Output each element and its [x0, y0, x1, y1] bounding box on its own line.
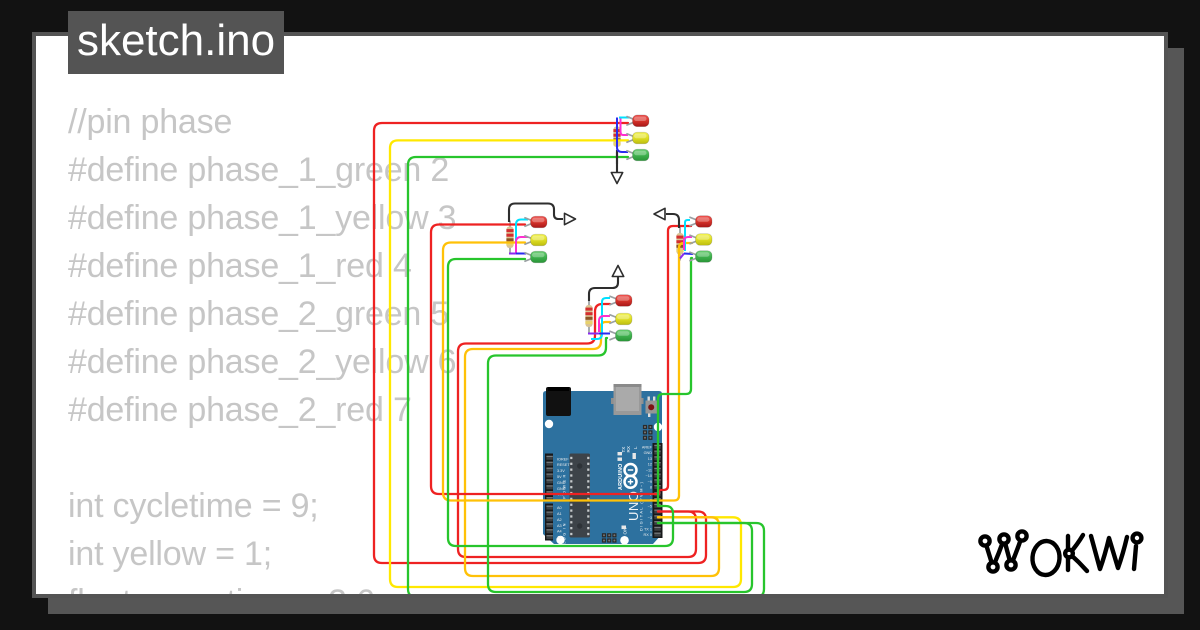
cyan wire right group — [685, 220, 690, 251]
svg-text:TX 1: TX 1 — [644, 527, 652, 531]
svg-text:RX: RX — [626, 446, 631, 452]
resistor R2 left — [506, 221, 513, 255]
digital header low — [653, 491, 663, 539]
cyan wire top group — [619, 117, 630, 119]
svg-text:RESET: RESET — [557, 463, 570, 467]
code listing — [68, 98, 456, 626]
svg-text:~9: ~9 — [648, 480, 652, 484]
LED red left (phase 2) — [525, 216, 547, 228]
svg-text:IOREF: IOREF — [557, 457, 569, 461]
power header — [545, 454, 553, 502]
arduino uno board U1 — [543, 391, 662, 544]
wire phase_1_red top to pin 4 — [374, 123, 706, 563]
LED yellow middle (phase 1) — [610, 313, 632, 325]
svg-text:ANALOG IN: ANALOG IN — [562, 522, 567, 556]
smd leds — [618, 452, 636, 529]
svg-text:A0: A0 — [557, 506, 562, 510]
resistor R4 middle — [585, 299, 592, 333]
LED green top (phase 1) — [627, 149, 649, 161]
magenta wire left group — [516, 237, 528, 253]
LED yellow right (phase 2) — [690, 234, 712, 246]
LED red top (phase 1) — [627, 115, 649, 127]
resistor R3 right — [676, 227, 683, 261]
digital header high — [653, 443, 663, 491]
purple wire left group — [509, 253, 516, 255]
LED green right (phase 2) — [690, 251, 712, 263]
ground ground top group — [611, 150, 622, 184]
svg-text:~10: ~10 — [646, 474, 652, 478]
net arrow left group — [565, 213, 576, 224]
ICSP header 1 — [643, 425, 653, 440]
resistor R1 top — [613, 121, 620, 154]
black wire right group — [666, 214, 679, 228]
wire phase_2_green right to pin 5 — [658, 258, 692, 506]
reset button — [648, 397, 650, 401]
LED red right (phase 2) — [690, 216, 712, 228]
svg-text:A2: A2 — [557, 518, 562, 522]
LED red middle (phase 1) — [610, 295, 632, 307]
LED green middle (phase 1) — [610, 330, 632, 342]
svg-text:13: 13 — [648, 457, 652, 461]
purple wire right group — [680, 254, 684, 259]
magenta wire top group — [621, 119, 629, 136]
black wire left group — [509, 204, 563, 223]
usb connector — [611, 398, 615, 404]
svg-text:~3: ~3 — [648, 516, 652, 520]
wire phase_1_green top to pin 2 — [408, 157, 764, 597]
blue wire middle group — [599, 333, 610, 335]
analog header — [545, 504, 553, 541]
sketch.ino tab — [68, 11, 284, 74]
blue wire top group — [617, 118, 628, 153]
svg-text:2: 2 — [650, 522, 652, 526]
svg-text:L: L — [633, 446, 638, 449]
svg-text:8: 8 — [650, 486, 652, 490]
wire phase_2_red left to pin 7 — [431, 225, 658, 495]
LED yellow left (phase 2) — [525, 234, 547, 246]
svg-text:4: 4 — [650, 510, 652, 514]
svg-text:~5: ~5 — [648, 504, 652, 508]
svg-text:~11: ~11 — [646, 468, 652, 472]
mounting holes — [545, 420, 662, 545]
net arrow middle group — [612, 266, 623, 277]
wire phase_1_red middle to pin 4 — [458, 304, 696, 557]
purple wire middle group — [588, 333, 599, 335]
wire phase_2_yellow left to pin 6 (gold) — [443, 243, 658, 501]
svg-text:AREF: AREF — [642, 445, 653, 449]
magenta wire middle group — [599, 316, 610, 332]
ICSP header 2 — [602, 533, 617, 542]
wire phase_2_red right to pin 7 — [659, 226, 691, 494]
power jack — [546, 387, 571, 416]
black wire top group — [616, 152, 618, 164]
svg-text:GND: GND — [644, 451, 653, 455]
blue wire right group — [684, 253, 693, 256]
LED green left (phase 2) — [525, 251, 547, 263]
cyan wire left group — [516, 220, 528, 253]
wire phase_1_yellow top to pin 3 — [390, 140, 741, 587]
ATmega328 DIP chip — [570, 454, 591, 538]
wire phase_1_green middle to pin 2 — [488, 338, 752, 592]
wire phase_2_green left to pin 5 — [448, 259, 673, 546]
pin labels — [557, 445, 653, 539]
black wire middle group — [589, 277, 618, 301]
silkscreen texts — [562, 446, 644, 556]
wire phase_1_yellow middle to pin 3 (gold) — [465, 322, 719, 576]
magenta wire right group — [684, 237, 692, 250]
svg-text:UNO: UNO — [626, 491, 641, 521]
LED yellow top (phase 1) — [627, 132, 649, 144]
svg-text:ARDUINO: ARDUINO — [618, 463, 624, 490]
wokwi logo — [980, 531, 1141, 576]
svg-text:A1: A1 — [557, 512, 562, 516]
blue wire left group — [512, 253, 526, 255]
svg-text:12: 12 — [648, 463, 652, 467]
cyan wire middle group — [591, 298, 610, 339]
wire phase_2_yellow right to pin 6 (gold) — [658, 243, 692, 501]
net arrow right group — [654, 208, 665, 219]
arduino logo — [625, 464, 637, 488]
svg-text:RX 0: RX 0 — [644, 533, 652, 537]
